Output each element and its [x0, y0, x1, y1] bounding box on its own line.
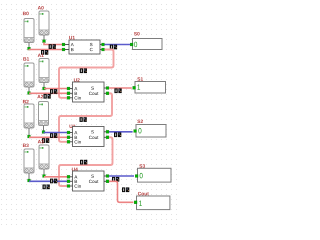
input pin A2 label — [37, 95, 43, 98]
wire carry U2.Cout to U3.Cin — [59, 93, 112, 142]
U2 pin Cin — [67, 96, 72, 99]
U1 pin A — [62, 43, 69, 46]
net value tag on A1 wire — [50, 89, 57, 94]
net value tag on A3 wire — [50, 179, 57, 184]
output display S0 label — [134, 32, 140, 35]
pin of A0 — [43, 35, 46, 43]
output display S3 label — [139, 164, 145, 167]
wire B0 to U1.B — [29, 48, 64, 50]
wire carry U3.Cout to U4.Cin — [59, 137, 113, 186]
U4 pin A — [67, 175, 72, 178]
input pin A3 — [39, 145, 49, 169]
input pin A2 — [39, 102, 49, 126]
input pin A1 — [39, 59, 49, 83]
net value tag on S2 wire — [114, 132, 121, 137]
net value tag on B0 wire — [41, 50, 48, 55]
wire carry U1.C to U2.Cin — [59, 50, 114, 98]
input pin B0 — [24, 19, 34, 43]
full adder U4 label — [72, 168, 78, 171]
input pin B1 label — [23, 57, 29, 60]
pin of A3 — [43, 169, 46, 177]
full adder U3 — [73, 127, 105, 147]
U4 pin Cin — [67, 185, 72, 188]
output display S3 — [135, 168, 171, 182]
U3 pin S — [104, 130, 109, 133]
wire B3 to U4.B — [29, 180, 67, 182]
U4 pin Cout — [104, 180, 109, 183]
input pin A3 label — [38, 140, 44, 143]
input pin B2 — [24, 104, 34, 128]
wire carry U4.Cout to Cout display — [109, 181, 133, 202]
wire A0 to U1.A — [44, 42, 64, 44]
pin of B2 — [28, 128, 31, 138]
U4 pin S — [104, 175, 109, 178]
wire B2 to U3.B — [29, 136, 67, 138]
pin of A2 — [42, 126, 45, 134]
U3 pin Cout — [104, 136, 109, 139]
input pin B3 label — [23, 144, 29, 147]
net value tag on S1 wire — [114, 88, 121, 93]
wire A2 to U3.A — [44, 132, 68, 134]
wire U3.S to S2 — [109, 131, 133, 133]
output display S2 — [134, 125, 166, 138]
U2 pin A — [67, 87, 72, 90]
half adder U1 label — [69, 36, 75, 39]
pin of B1 — [28, 87, 31, 94]
U2 pin Cout — [104, 92, 109, 95]
net value tag on A2 wire — [50, 133, 57, 138]
output display S2 label — [137, 120, 143, 123]
net value tag on B2 wire — [42, 138, 49, 143]
U2 pin S — [104, 87, 109, 90]
net value tag on carry1 wire — [80, 68, 87, 73]
full adder U4 — [73, 171, 105, 191]
U1 pin B — [62, 48, 69, 51]
net value tag on carry3 wire — [80, 160, 87, 165]
input pin A1 label — [38, 54, 44, 57]
input pin B1 — [24, 63, 34, 87]
U3 pin Cin — [67, 140, 72, 143]
wire A3 to U4.A — [44, 176, 67, 178]
wire U2.S to S1 — [109, 87, 132, 89]
U2 pin B — [67, 92, 72, 95]
input pin B0 label — [23, 12, 29, 15]
net value tag on carry2 wire — [80, 117, 87, 122]
net value tag on S0 wire — [110, 45, 117, 50]
U1 pin C — [100, 48, 104, 51]
net value tag on B3 wire — [43, 185, 50, 190]
net value tag on Cout wire — [122, 187, 129, 192]
input pin B2 label — [23, 100, 29, 103]
wire U4.S to S3 — [109, 175, 134, 177]
input pin B3 — [24, 149, 34, 173]
pin of B3 — [28, 173, 31, 182]
output display Cout — [134, 196, 170, 210]
net value tag on S3 wire — [112, 177, 119, 182]
full adder U3 label — [69, 125, 75, 128]
input pin A0 — [39, 11, 49, 35]
input pin A0 label — [38, 6, 44, 9]
U3 pin B — [67, 136, 72, 139]
U1 pin S — [100, 43, 104, 46]
U3 pin A — [67, 131, 72, 134]
half adder U1 — [69, 40, 100, 54]
output display S1 — [133, 82, 166, 94]
net value tag on B1 wire — [44, 94, 51, 99]
output display Cout label — [138, 192, 149, 195]
output display S1 label — [137, 77, 143, 80]
wire B1 to U2.B — [29, 92, 67, 94]
U4 pin B — [67, 180, 72, 183]
pin of A1 — [43, 83, 46, 90]
wire A1 to U2.A — [44, 88, 67, 90]
full adder U2 label — [74, 78, 80, 81]
output display S0 — [130, 39, 162, 50]
wire U1.S to S0 — [105, 44, 131, 46]
full adder U2 — [73, 82, 105, 102]
net value tag on A0 wire — [49, 44, 56, 49]
pin of B0 — [28, 43, 31, 51]
